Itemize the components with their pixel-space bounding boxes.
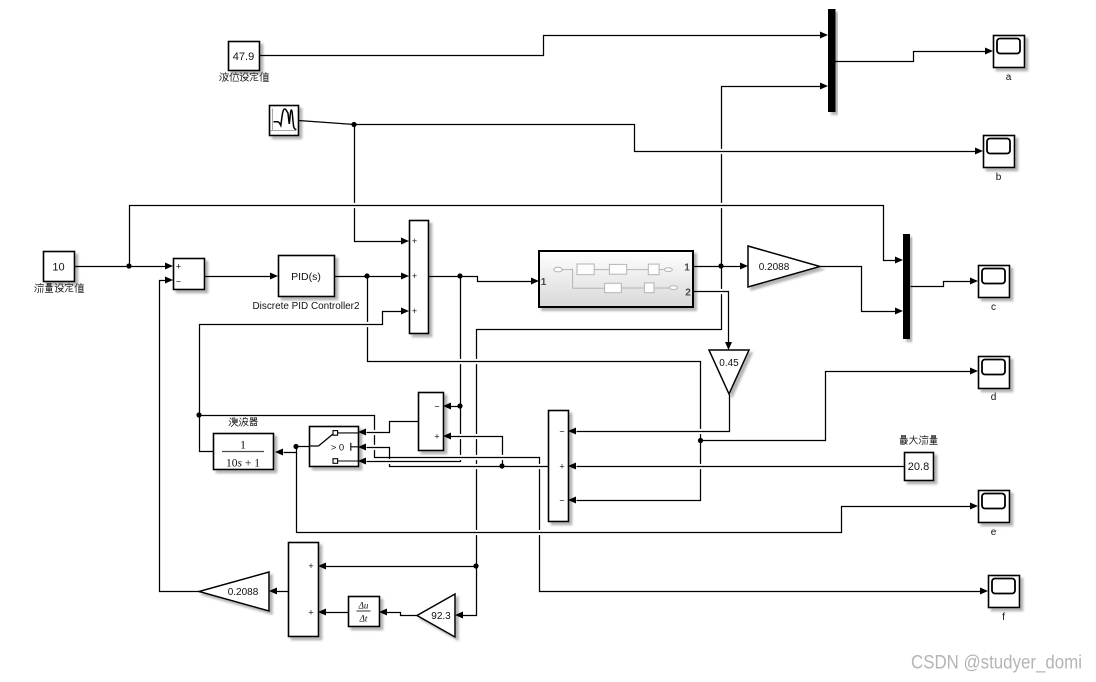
svg-text:+: + <box>412 306 417 316</box>
svg-text:20.8: 20.8 <box>908 461 929 473</box>
wire PID to Add1 input2 with branch down to node Sum3 area <box>335 273 979 504</box>
wire crossing gaps <box>352 149 724 535</box>
svg-text:Δt: Δt <box>359 614 368 624</box>
derivative block Du/Dt <box>349 597 380 627</box>
transfer function block 1/(10s+1) (filter) <box>214 434 274 470</box>
svg-text:Δu: Δu <box>358 601 369 611</box>
svg-text:a: a <box>1006 72 1012 83</box>
switch block > 0 <box>309 427 359 467</box>
svg-text:Discrete PID Controller2: Discrete PID Controller2 <box>253 301 360 312</box>
wire 10 to Sum1 plus with branch to Mux2 input1 <box>75 206 904 270</box>
svg-text:47.9: 47.9 <box>233 51 254 63</box>
svg-text:1: 1 <box>684 263 690 274</box>
scope f <box>989 576 1020 624</box>
scope e <box>979 491 1010 539</box>
mux bar Mux1 (top, to scope a) <box>828 9 836 112</box>
svg-text:1: 1 <box>240 438 246 452</box>
sum block Sum1 (+/-) <box>174 259 205 290</box>
sum block Sum2 (inputs right: -, +) <box>419 393 444 451</box>
wire 47.9 to Mux1 input1 <box>260 32 829 56</box>
svg-text:92.3: 92.3 <box>431 611 451 622</box>
svg-text:PID(s): PID(s) <box>291 271 321 283</box>
wire subsystem out2 to gain 0.45 <box>694 292 733 351</box>
constant block 47.9 (liquid level setpoint) <box>229 42 260 71</box>
svg-text:+: + <box>308 608 313 618</box>
scope d <box>979 357 1010 404</box>
label 最大流量 <box>900 435 938 444</box>
svg-text:d: d <box>991 392 997 403</box>
wire source to scope b with branch to Add1 input1 <box>299 121 984 245</box>
gain block 92.3 (left-pointing triangle) <box>417 594 455 637</box>
svg-text:> 0: > 0 <box>331 443 344 454</box>
wire derivative to Sum4 plus2 <box>318 609 349 616</box>
svg-text:CSDN @studyer_domi: CSDN @studyer_domi <box>911 653 1082 674</box>
svg-text:−: − <box>559 496 564 506</box>
mux bar Mux2 (middle, to scope c) <box>903 234 910 339</box>
wire filter out to Add1 input3 and scope f <box>196 308 988 595</box>
Discrete PID Controller2 block <box>279 256 335 297</box>
gain block 0.2088 (left-pointing triangle) <box>199 572 269 611</box>
wire gain 92.3 to derivative <box>379 609 418 616</box>
svg-text:1: 1 <box>541 277 547 288</box>
scope c <box>979 266 1010 314</box>
gain block 0.45 (down-pointing triangle) <box>709 350 749 394</box>
subsystem block (process model, 1 in, 2 out) <box>539 251 693 307</box>
gain block 0.2088 (right-pointing triangle) <box>748 246 820 287</box>
svg-text:+: + <box>176 262 181 272</box>
svg-text:−: − <box>434 402 439 412</box>
svg-text:0.45: 0.45 <box>719 358 739 369</box>
svg-text:0.2088: 0.2088 <box>228 587 259 598</box>
svg-text:10s + 1: 10s + 1 <box>226 458 260 470</box>
svg-text:+: + <box>412 271 417 281</box>
svg-text:+: + <box>412 236 417 246</box>
sum block Sum3 (inputs right: -, +, -) <box>549 411 569 522</box>
wire 20.8 to Sum3 plus <box>568 463 905 470</box>
scope b <box>984 136 1015 184</box>
signal source block (waveform icon) <box>270 106 299 136</box>
add block Add1 (vertical, three + inputs) <box>410 221 429 334</box>
svg-text:−: − <box>559 427 564 437</box>
svg-text:c: c <box>991 302 996 313</box>
svg-text:2: 2 <box>685 288 691 299</box>
svg-text:+: + <box>559 462 564 472</box>
wire gain 0.2088 left to Sum1 minus <box>160 277 200 592</box>
wire Sum4 out to gain 0.2088 left <box>269 588 289 595</box>
constant block 10 (flow setpoint) <box>44 252 75 282</box>
svg-text:10: 10 <box>52 262 64 274</box>
wire Add1 to subsystem with branch down to Sum2 minus and switch input3 <box>358 273 539 464</box>
label 滤波器 <box>229 417 257 426</box>
label 液位设定值 <box>220 72 269 81</box>
svg-text:+: + <box>308 561 313 571</box>
wire subsystem out1 to gain 0.2088 with branches to Mux1 input2 and feed line <box>318 83 828 619</box>
svg-text:f: f <box>1002 612 1005 623</box>
svg-text:e: e <box>991 527 997 538</box>
label Discrete PID Controller2 <box>253 301 360 312</box>
wire Sum1 to PID <box>205 273 279 280</box>
wire Mux1 to scope a <box>836 48 994 62</box>
svg-text:−: − <box>176 277 181 287</box>
svg-text:+: + <box>434 432 439 442</box>
scope a <box>994 36 1025 84</box>
wire switch out to filter with branch to scope e <box>275 444 978 533</box>
wire Mux2 to scope c <box>911 278 979 287</box>
wire Sum2 out to switch input1 <box>358 422 419 436</box>
label 流量设定值 <box>35 283 84 292</box>
watermark CSDN @studyer_domi <box>911 653 1082 674</box>
wire gain 0.45 to Sum3 minus1 <box>568 395 730 435</box>
wire Sum3 out to Sum2 plus and switch control <box>358 433 549 469</box>
svg-text:0.2088: 0.2088 <box>759 262 790 273</box>
wire gain 0.2088 to Mux2 input2 <box>821 267 904 315</box>
sum block Sum4 (inputs right: +, +) <box>289 543 319 637</box>
constant block 20.8 (max flow) <box>905 453 934 481</box>
svg-text:b: b <box>996 172 1002 183</box>
